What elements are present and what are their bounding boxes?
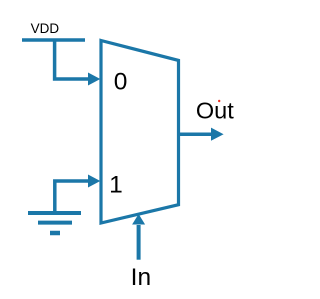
wire In select (137, 225, 141, 260)
svg-text:VDD: VDD (31, 21, 60, 36)
ground (28, 183, 81, 233)
svg-text:1: 1 (109, 171, 123, 198)
svg-text:Out: Out (196, 98, 234, 124)
wire Out (179, 132, 212, 136)
mux U1 trapezoid (101, 41, 179, 224)
power rail VDD (22, 38, 85, 42)
wire ground elbow to mux input 1 (55, 181, 89, 183)
svg-text:In: In (131, 264, 151, 291)
svg-text:0: 0 (114, 68, 128, 95)
red dot artifact (218, 100, 220, 102)
arrowhead into input 1 (88, 175, 100, 188)
arrowhead In (132, 214, 145, 225)
arrowhead into input 0 (88, 73, 100, 86)
arrowhead Out (211, 128, 224, 141)
wire VDD elbow to mux input 0 (55, 42, 89, 80)
